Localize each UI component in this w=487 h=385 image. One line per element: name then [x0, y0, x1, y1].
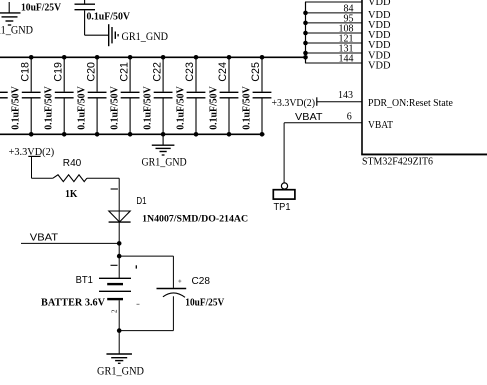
svg-text:0.1uF/50V: 0.1uF/50V: [209, 86, 220, 130]
junction C23 top: [194, 55, 199, 60]
junction C21 top: [128, 55, 133, 60]
svg-text:VBAT: VBAT: [30, 232, 58, 243]
junction C19 bottom: [62, 132, 67, 137]
junction battery top node: [117, 254, 122, 259]
svg-text:C23: C23: [184, 62, 196, 82]
wire VDD pin 5: [305, 42, 362, 44]
svg-text:0.1uF/50V: 0.1uF/50V: [77, 86, 88, 130]
junction C25 top: [260, 55, 265, 60]
svg-text:0.1uF/50V: 0.1uF/50V: [44, 86, 55, 130]
svg-text:GR1_GND: GR1_GND: [122, 31, 169, 43]
junction bus: [303, 21, 308, 26]
svg-text:0.1uF/50V: 0.1uF/50V: [176, 86, 187, 130]
wire from power: [32, 156, 53, 178]
svg-text:GR1_GND: GR1_GND: [142, 156, 187, 168]
capacitor C18: [22, 57, 41, 134]
svg-text:C20: C20: [85, 62, 97, 82]
wire to ground: [118, 331, 120, 354]
junction C24 top: [227, 55, 232, 60]
resistor R40: [53, 175, 87, 182]
ground GR1_GND rotated: [109, 24, 118, 46]
svg-text:C28: C28: [192, 276, 211, 287]
net tick: [316, 97, 318, 106]
capacitor C25: [253, 57, 272, 134]
junction C22 top: [161, 55, 166, 60]
svg-text:BATTER 3.6V: BATTER 3.6V: [41, 298, 105, 309]
svg-text:0.1uF/50V: 0.1uF/50V: [110, 86, 121, 130]
svg-text:0.1uF/50V: 0.1uF/50V: [143, 86, 154, 130]
wire VBAT pin 6: [284, 122, 362, 124]
capacitor C23: [187, 57, 206, 134]
pin mark 1 (rotated): [111, 188, 118, 190]
battery BT1: [99, 256, 131, 331]
junction C25 bottom: [260, 132, 265, 137]
svg-text:VBAT: VBAT: [368, 120, 394, 131]
svg-text:10uF/25V: 10uF/25V: [21, 3, 62, 14]
ground GR1_GND mid: [152, 134, 175, 155]
wire VDD pin 6: [305, 52, 362, 54]
wire VDD pin 2: [305, 12, 362, 14]
svg-text:1N4007/SMD/DO-214AC: 1N4007/SMD/DO-214AC: [142, 215, 248, 225]
svg-text:VBAT: VBAT: [295, 112, 323, 123]
power bar: [28, 155, 40, 157]
wire VBAT down to TP1: [283, 123, 285, 183]
svg-text:STM32F429ZIT6: STM32F429ZIT6: [362, 157, 433, 168]
svg-text:C18: C18: [19, 62, 31, 82]
wire D1 to VBAT node: [118, 222, 120, 243]
junction bus: [303, 11, 308, 16]
svg-text:PDR_ON:Reset State: PDR_ON:Reset State: [368, 98, 453, 109]
svg-text:D1: D1: [136, 196, 147, 207]
wire to C28: [119, 256, 173, 288]
capacitor C19: [55, 57, 74, 134]
junction C18 bottom: [29, 132, 34, 137]
ground GR1_GND top-left partial: [0, 2, 21, 25]
svg-text:2: 2: [110, 309, 118, 313]
wire VDD pin 3: [305, 22, 362, 24]
junction C18 top: [29, 55, 34, 60]
svg-text:144: 144: [339, 54, 354, 65]
svg-text:10uF/25V: 10uF/25V: [185, 297, 224, 308]
svg-text:C25: C25: [250, 62, 262, 82]
junction bus: [303, 31, 308, 36]
test point TP1 body: [273, 190, 295, 199]
junction C19 top: [62, 55, 67, 60]
svg-text:0.1uF/50V: 0.1uF/50V: [11, 86, 22, 130]
junction C22 bottom: [161, 132, 166, 137]
wire VDD pin 1: [305, 1, 362, 3]
junction C20 top: [95, 55, 100, 60]
svg-text:+3.3VD(2): +3.3VD(2): [272, 97, 316, 109]
junction bus: [303, 41, 308, 46]
svg-text:C24: C24: [217, 62, 229, 82]
svg-text:C21: C21: [118, 62, 130, 82]
svg-text:143: 143: [338, 90, 353, 101]
wire to ground: [85, 34, 109, 36]
svg-text:0.1uF/50V: 0.1uF/50V: [242, 86, 253, 130]
svg-text:1K: 1K: [65, 189, 78, 200]
wire top rail +3.3V: [0, 56, 306, 58]
junction C24 bottom: [227, 132, 232, 137]
svg-text:TP1: TP1: [274, 202, 291, 213]
wire VDD vertical bus: [305, 2, 307, 63]
svg-text:6: 6: [347, 111, 352, 122]
wire VBAT: [21, 242, 119, 244]
wire down: [118, 243, 120, 256]
junction C20 bottom: [95, 132, 100, 137]
capacitor C17 partial at left edge: [0, 92, 8, 98]
svg-text:0.1uF/50V: 0.1uF/50V: [87, 12, 131, 23]
svg-text:C22: C22: [151, 62, 163, 82]
capacitor C21: [121, 57, 140, 134]
battery plus mark: [135, 265, 137, 268]
svg-text:BT1: BT1: [76, 275, 94, 286]
capacitor 0.1uF/50V top: [75, 0, 96, 35]
capacitor C28: [157, 289, 187, 331]
wire VDD pin 4: [305, 32, 362, 34]
capacitor C24: [220, 57, 239, 134]
wire pin 143: [317, 101, 362, 103]
junction battery bottom node: [117, 328, 122, 333]
junction VBAT node: [117, 241, 122, 246]
test point TP1 circle: [281, 183, 287, 189]
battery minus mark: [137, 303, 140, 305]
capacitor C22: [154, 57, 173, 134]
svg-text:GR1_GND: GR1_GND: [0, 25, 33, 37]
svg-text:R40: R40: [63, 158, 82, 169]
junction C23 bottom: [194, 132, 199, 137]
capacitor C20: [88, 57, 107, 134]
C28 plus mark: [178, 280, 181, 283]
wire R40 to D1: [87, 178, 119, 222]
junction bus: [303, 55, 308, 60]
svg-text:C19: C19: [52, 62, 64, 82]
svg-text:VDD: VDD: [368, 0, 391, 8]
IC STM32F429ZIT6 bottom edge: [361, 153, 487, 155]
wire C28 bottom to battery: [119, 330, 173, 332]
op-amp U? : IC STM32F429ZIT6 left edge: [361, 0, 363, 154]
diode D1: [109, 211, 131, 222]
junction C21 bottom: [128, 132, 133, 137]
svg-text:VDD: VDD: [368, 61, 391, 72]
battery pin mark 1: [111, 264, 118, 266]
junction bus: [303, 51, 308, 56]
ground GR1_GND bottom: [106, 354, 132, 363]
wire VDD pin 7: [305, 62, 362, 64]
wire bottom rail GND: [0, 133, 265, 135]
svg-text:GR1_GND: GR1_GND: [97, 366, 144, 378]
